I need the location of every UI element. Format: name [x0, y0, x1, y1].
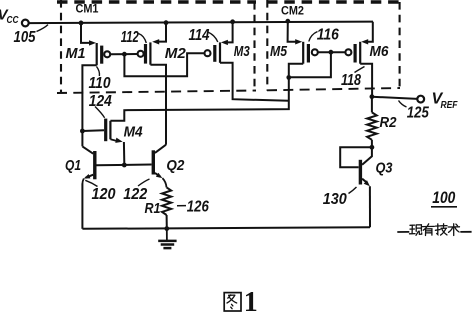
label 114 with leader [189, 27, 218, 44]
transistor M6 (PMOS) [345, 22, 372, 64]
svg-text:118: 118 [341, 72, 361, 89]
figure caption 图1 [224, 287, 258, 312]
svg-text:Q3: Q3 [376, 160, 394, 177]
wire VCC rail [29, 22, 373, 24]
svg-text:Q1: Q1 [65, 157, 81, 174]
wire Q1-Q2 bases / M4 source [96, 164, 151, 167]
svg-text:REF: REF [441, 99, 458, 111]
transistor M3 (PMOS) [205, 22, 233, 63]
svg-text:M4: M4 [124, 123, 144, 140]
label 130 with leader [323, 187, 357, 208]
svg-text:100: 100 [432, 188, 455, 207]
label 126 with leader [177, 198, 209, 215]
label 110 with leader [89, 67, 111, 93]
wire M2 drain [150, 65, 166, 145]
transistor Q3 (BJT) [360, 147, 372, 227]
junction M6 drain / VREF / R2 [370, 94, 375, 99]
junction bases/M4 source [122, 163, 127, 168]
transistor M2 (PMOS) [138, 23, 166, 65]
svg-text:120: 120 [92, 186, 116, 203]
svg-text:CM2: CM2 [281, 4, 304, 18]
svg-text:CC: CC [7, 15, 20, 26]
svg-text:130: 130 [323, 191, 347, 208]
svg-text:M2: M2 [165, 45, 187, 62]
current mirror boundary CM2 (dashed box) [267, 0, 401, 91]
junction M4 gate / Q1 collector wire [80, 129, 85, 134]
wire Q3 base loop [340, 147, 372, 167]
wire gate bus M1-M2 [110, 53, 138, 55]
wire gate bus M5-M6 [318, 51, 346, 53]
label 118 with leader [341, 67, 365, 90]
transistor M4 (NMOS) [82, 119, 124, 163]
resistor R1 [162, 187, 171, 228]
label 116 with leader [309, 27, 339, 44]
node N junction (M5 drain) [286, 75, 291, 80]
svg-text:M3: M3 [234, 43, 251, 60]
transistor M5 (PMOS) [288, 21, 318, 64]
label 112 with leader [121, 29, 147, 46]
svg-text:114: 114 [189, 27, 210, 44]
svg-text:R2: R2 [380, 114, 398, 131]
current mirror boundary CM1 (dashed box) [57, 0, 256, 94]
transistor Q1 (BJT) [82, 146, 94, 184]
svg-text:M1: M1 [66, 45, 86, 62]
wire Q1 emitter to ground rail [81, 184, 83, 229]
junction VCC/M5 source [285, 19, 290, 24]
label 124 with leader [89, 93, 112, 118]
junction VCC/M2 source [164, 20, 169, 25]
transistor Q2 (BJT) [153, 145, 166, 188]
svg-text:105: 105 [14, 29, 36, 46]
transistor M1 (PMOS) [81, 23, 110, 65]
svg-text:126: 126 [187, 198, 209, 215]
svg-text:1: 1 [244, 287, 258, 312]
svg-text:M5: M5 [270, 43, 288, 60]
junction VCC/M3 source [230, 19, 235, 24]
wire M5 drain [289, 64, 303, 75]
svg-text:CM1: CM1 [76, 2, 99, 16]
svg-text:R1: R1 [145, 200, 161, 217]
wire node N down [110, 77, 288, 120]
svg-text:112: 112 [121, 29, 139, 46]
wire M6 drain [360, 64, 372, 97]
wire ground rail [82, 227, 370, 229]
VCC terminal 105 [0, 7, 48, 47]
ground [158, 229, 176, 249]
svg-text:Q2: Q2 [166, 157, 185, 174]
junction M1-M2 gates [122, 52, 127, 57]
svg-text:125: 125 [407, 104, 429, 121]
annotation prior-art (现有技术) [397, 224, 471, 236]
wire gate to M2 drain and M3 gate [124, 53, 204, 76]
wire M3 drain [220, 63, 289, 101]
junction VCC/M1 source [79, 21, 84, 26]
resistor R2 [367, 97, 377, 148]
VREF terminal 125 [399, 90, 458, 121]
junction M5-M6 gates [329, 50, 334, 55]
svg-text:116: 116 [317, 27, 339, 44]
wire VREF [372, 97, 417, 99]
wire M1 drain [82, 65, 96, 146]
junction R2 / Q3 [370, 145, 375, 150]
wire M5/M6 gates to node N [291, 52, 331, 77]
label 120 with leader [85, 180, 116, 203]
label 122 with leader [123, 179, 149, 203]
junction ground node [164, 226, 169, 231]
figure reference 100 [431, 188, 457, 207]
svg-text:124: 124 [89, 93, 112, 110]
svg-text:110: 110 [89, 75, 111, 92]
svg-text:M6: M6 [370, 43, 390, 60]
